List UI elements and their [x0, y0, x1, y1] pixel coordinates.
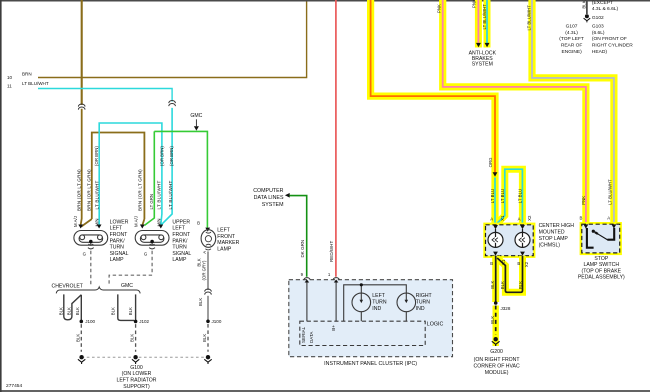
svg-text:(TOP LEFT: (TOP LEFT: [559, 36, 584, 42]
svg-text:PNK: PNK: [471, 0, 476, 8]
svg-text:FRONT: FRONT: [172, 232, 191, 238]
svg-text:BLK: BLK: [111, 307, 116, 315]
svg-text:A: A: [202, 251, 207, 254]
svg-text:IND: IND: [372, 306, 381, 312]
svg-text:LAMP SWITCH: LAMP SWITCH: [583, 262, 619, 268]
svg-text:277454: 277454: [6, 383, 22, 389]
yellow highlight BLK return wires: [492, 256, 499, 302]
svg-text:(ON LOWER: (ON LOWER: [122, 371, 152, 377]
svg-text:LT BLU/WHT: LT BLU/WHT: [607, 179, 612, 205]
svg-text:B: B: [517, 261, 520, 266]
yellow highlight ABS PNK wire: [475, 0, 482, 48]
svg-text:LT BLU: LT BLU: [500, 189, 505, 203]
svg-text:A: A: [490, 217, 493, 222]
svg-text:G103: G103: [592, 24, 604, 30]
G103 text: [592, 24, 633, 56]
svg-text:M A/J: M A/J: [134, 216, 139, 227]
svg-text:G107: G107: [566, 24, 578, 30]
connector C on LT BLU/WHT wire: [169, 101, 176, 107]
svg-text:J100: J100: [85, 319, 95, 324]
G200 text: [474, 349, 521, 376]
arrow to computer data lines: [285, 193, 290, 198]
svg-text:(6.6L): (6.6L): [592, 30, 605, 36]
svg-text:ORG: ORG: [488, 157, 493, 168]
wire BLK left return: [495, 256, 497, 302]
ABS arrows: [476, 43, 481, 47]
svg-text:LEFT: LEFT: [217, 228, 230, 234]
lamp text UPPER: [172, 219, 191, 263]
svg-text:BLK: BLK: [518, 281, 523, 289]
svg-text:TURN: TURN: [110, 245, 125, 251]
svg-text:BLK: BLK: [128, 307, 133, 315]
svg-text:SIGNAL: SIGNAL: [172, 251, 191, 257]
svg-text:DK GRN: DK GRN: [300, 240, 305, 258]
svg-text:TURN: TURN: [372, 299, 387, 305]
marker lamp text: [217, 228, 239, 253]
CHMSL caption: [539, 223, 575, 248]
svg-text:A: A: [607, 216, 610, 221]
svg-text:DATA LINES: DATA LINES: [254, 195, 284, 201]
wire ORG core: [371, 0, 495, 173]
svg-text:BLK: BLK: [130, 334, 135, 342]
svg-text:SUPPORT): SUPPORT): [123, 384, 150, 390]
lamp UPPER LEFT FRONT PARK/TURN SIGNAL LAMP: [135, 231, 169, 249]
svg-text:X2: X2: [527, 215, 532, 221]
svg-text:BLK: BLK: [75, 334, 80, 342]
svg-text:B: B: [197, 221, 200, 226]
rotated wire labels lamp2: [134, 146, 175, 227]
switch contacts: [587, 228, 594, 248]
wire BRN feed row 10 (L from top to left margin): [38, 2, 307, 78]
stop lamp switch yellow box: [582, 224, 620, 253]
svg-text:CORNER OF HVAC: CORNER OF HVAC: [474, 363, 520, 369]
svg-text:IND: IND: [416, 306, 425, 312]
svg-text:BLK: BLK: [490, 280, 495, 288]
svg-text:PNK: PNK: [437, 4, 442, 13]
CHMSL pin arrows: [493, 225, 498, 229]
svg-text:LAMP: LAMP: [217, 246, 232, 252]
svg-text:M A/J: M A/J: [73, 216, 78, 227]
IPC bulb feed bus: [344, 285, 407, 321]
wire ABS LT BLU/WHT core: [486, 0, 488, 43]
svg-text:LEFT: LEFT: [172, 226, 185, 232]
svg-text:MOUNTED: MOUNTED: [539, 230, 565, 236]
svg-text:X1: X1: [500, 215, 505, 221]
svg-text:SYSTEM: SYSTEM: [472, 61, 493, 67]
CHMSL bulb left: [488, 229, 503, 247]
svg-text:PEDAL ASSEMBLY): PEDAL ASSEMBLY): [578, 275, 625, 281]
svg-text:X2: X2: [524, 261, 529, 267]
indicator RIGHT TURN IND: [397, 293, 416, 312]
svg-text:FRONT: FRONT: [110, 232, 129, 238]
border top: [0, 0, 650, 2]
svg-text:(OR BRN): (OR BRN): [94, 146, 99, 166]
svg-text:LOGIC: LOGIC: [427, 321, 444, 327]
svg-text:STOP LAMP: STOP LAMP: [539, 236, 569, 242]
wire PNK core: [443, 0, 586, 224]
yellow highlight PNK wire: [443, 0, 586, 222]
ORG end arrow: [493, 172, 498, 176]
svg-text:SIGNAL: SIGNAL: [110, 251, 129, 257]
svg-text:B: B: [490, 261, 493, 266]
svg-text:GMC: GMC: [121, 283, 133, 289]
svg-text:(OR GRY): (OR GRY): [202, 260, 207, 281]
svg-text:LAMP: LAMP: [110, 257, 125, 263]
switch pivot and blade: [592, 230, 595, 233]
svg-text:SERIAL: SERIAL: [301, 326, 306, 343]
IPC internal B+ line: [335, 283, 337, 322]
computer data lines system text: [253, 188, 284, 208]
splice J100: [80, 320, 84, 324]
svg-text:LAMP: LAMP: [172, 257, 187, 263]
svg-text:TURN: TURN: [416, 299, 431, 305]
svg-text:TURN: TURN: [172, 245, 187, 251]
wire RED/WHT: [335, 0, 337, 277]
ground dashed from lamp1: [90, 251, 92, 284]
svg-text:BLK: BLK: [198, 298, 203, 306]
svg-text:10: 10: [7, 75, 13, 80]
wire BLK(OR GRY) from marker lamp: [207, 251, 209, 290]
svg-text:BLK: BLK: [202, 334, 207, 342]
CHMSL yellow box: [486, 225, 534, 256]
svg-text:(ON RIGHT FRONT: (ON RIGHT FRONT: [474, 357, 521, 363]
svg-text:GMC: GMC: [190, 113, 202, 119]
svg-text:SYSTEM: SYSTEM: [262, 202, 284, 208]
lamp LOWER LEFT FRONT PARK/TURN SIGNAL LAMP: [74, 231, 108, 249]
G100 text: [117, 365, 157, 390]
splice J100 (marker): [206, 320, 210, 324]
ground G102: [585, 14, 589, 18]
ground bus G100 dashed: [82, 356, 208, 358]
svg-text:BRN: BRN: [22, 72, 32, 77]
svg-text:A: A: [518, 217, 521, 222]
pin arrows lamp2: [140, 225, 145, 229]
svg-text:J100: J100: [212, 319, 222, 324]
LOGIC box: [300, 321, 425, 345]
svg-text:LT BLU/WHT: LT BLU/WHT: [482, 4, 487, 30]
svg-text:PNK: PNK: [581, 196, 586, 205]
wire LT BLU CHMSL drop: [494, 177, 496, 224]
svg-text:RIGHT: RIGHT: [416, 293, 433, 299]
brace: [56, 287, 140, 293]
svg-text:BRN (OR LT GRN): BRN (OR LT GRN): [138, 169, 143, 211]
ind labels: [372, 293, 432, 312]
svg-text:BLK: BLK: [581, 0, 586, 8]
border left: [0, 0, 2, 392]
svg-text:RED/WHT: RED/WHT: [329, 241, 334, 262]
CHMSL bottom pin arrows: [493, 252, 498, 256]
svg-text:LT BLU/WHT: LT BLU/WHT: [22, 81, 49, 86]
yellow highlight ORG wire: [371, 0, 495, 176]
svg-text:INSTRUMENT PANEL CLUSTER (IPC): INSTRUMENT PANEL CLUSTER (IPC): [324, 361, 417, 367]
wire LT BLU jumper lamp1 to lamp2: [99, 123, 162, 226]
svg-text:DATA: DATA: [309, 331, 314, 343]
svg-text:LT BLU/WHT: LT BLU/WHT: [168, 180, 173, 209]
yellow highlight LT BLU/WHT switch wire: [532, 0, 614, 222]
svg-text:BRN (OR LT GRN): BRN (OR LT GRN): [76, 169, 81, 211]
svg-text:LEFT: LEFT: [110, 226, 123, 232]
svg-text:BLK: BLK: [59, 307, 64, 315]
splice J102: [134, 320, 138, 324]
svg-text:MARKER: MARKER: [217, 240, 239, 246]
svg-text:LT BLU: LT BLU: [517, 189, 522, 203]
svg-text:J102: J102: [139, 319, 149, 324]
svg-text:(OR BRN): (OR BRN): [169, 146, 174, 166]
border bottom: [0, 390, 650, 392]
GMC ground wires: [118, 294, 134, 320]
svg-text:LT GRN: LT GRN: [149, 194, 154, 210]
svg-text:RIGHT CYLINDER: RIGHT CYLINDER: [592, 43, 633, 49]
junction dot: [360, 283, 363, 286]
wire LT GRN GMC branch: [144, 131, 207, 227]
G107 text: [559, 24, 584, 56]
svg-text:G100: G100: [130, 365, 143, 371]
ground G100 symbols: [78, 355, 212, 364]
port labels: [301, 325, 336, 343]
svg-text:COMPUTER: COMPUTER: [253, 188, 283, 194]
svg-text:BRN (OR LT GRN): BRN (OR LT GRN): [87, 169, 92, 211]
svg-text:LT BLU: LT BLU: [490, 189, 495, 203]
rotated wire labels lamp1: [73, 146, 100, 227]
svg-text:J328: J328: [501, 306, 511, 311]
pin arrows lamp1: [78, 225, 83, 229]
wire BLK to G102: [586, 2, 588, 15]
svg-text:B+: B+: [331, 325, 336, 331]
wire BRN main vertical drop to lamp: [81, 0, 83, 105]
svg-text:ENGINE): ENGINE): [562, 49, 583, 55]
ground dashed from lamp2: [109, 251, 152, 284]
G102 text: [592, 0, 619, 21]
svg-text:UPPER: UPPER: [172, 219, 190, 225]
svg-text:PARK/: PARK/: [172, 238, 188, 244]
svg-text:STOP: STOP: [594, 256, 608, 262]
svg-text:CENTER HIGH: CENTER HIGH: [539, 223, 575, 229]
svg-text:FRONT: FRONT: [217, 234, 236, 240]
wire DK GRN: [289, 196, 306, 277]
wire LT BLU/WHT (gray) core: [532, 0, 614, 224]
svg-text:BLK: BLK: [490, 316, 495, 324]
svg-text:G200: G200: [490, 349, 503, 355]
lamp text LOWER: [110, 219, 129, 263]
IPC box: [289, 280, 453, 357]
indicator LEFT TURN IND: [352, 293, 371, 312]
svg-text:11: 11: [7, 84, 12, 89]
svg-text:BLK: BLK: [500, 281, 505, 289]
svg-text:MODULE): MODULE): [485, 370, 509, 376]
svg-text:LEFT RADIATOR: LEFT RADIATOR: [117, 378, 157, 384]
switch pin arrows: [584, 224, 589, 228]
svg-text:(EXCEPT: (EXCEPT: [592, 0, 613, 6]
svg-text:G102: G102: [592, 15, 604, 21]
wire BLK right return: [497, 256, 522, 293]
splice J328: [494, 301, 498, 305]
svg-text:(CHMSL): (CHMSL): [539, 242, 561, 248]
ABS text: [469, 50, 497, 67]
svg-text:PARK/: PARK/: [110, 238, 126, 244]
svg-text:LT BLU/WHT: LT BLU/WHT: [527, 5, 532, 31]
svg-text:B: B: [579, 216, 582, 221]
yellow highlight CHMSL cyan drop + jumper: [491, 176, 498, 225]
dashed BLK to G200 with highlight: [493, 306, 499, 336]
svg-text:4.3L & 6.6L): 4.3L & 6.6L): [592, 6, 619, 12]
svg-text:LEFT: LEFT: [372, 293, 385, 299]
connector on marker wire: [205, 289, 212, 295]
CHEVROLET ground wires: [64, 294, 82, 319]
yellow highlight ABS LT BLU/WHT wire: [484, 0, 491, 48]
svg-text:LOWER: LOWER: [110, 219, 129, 225]
svg-text:(ON FRONT OF: (ON FRONT OF: [592, 36, 627, 42]
wire BRN jumper lamp1 to lamp2: [81, 133, 144, 227]
svg-text:(TOP OF BRAKE: (TOP OF BRAKE: [582, 268, 622, 274]
switch caption: [578, 256, 625, 281]
svg-text:CHEVROLET: CHEVROLET: [52, 284, 84, 290]
svg-text:HEAD): HEAD): [592, 49, 607, 55]
wire LT BLU/WHT row 11: [38, 89, 172, 102]
labels LT BLU x3: [490, 189, 522, 203]
svg-text:BLK: BLK: [66, 307, 71, 315]
connector C on BRN wire: [78, 104, 85, 110]
svg-text:BLK: BLK: [75, 307, 80, 315]
svg-text:(OR BRN): (OR BRN): [160, 146, 165, 166]
IPC internal serial data line: [306, 283, 308, 322]
svg-text:LT BLU/WHT: LT BLU/WHT: [95, 180, 100, 209]
wire LT BLU jumper: [496, 169, 522, 225]
svg-text:REAR OF: REAR OF: [561, 43, 583, 49]
ground G200: [493, 335, 499, 346]
svg-text:(4.3L): (4.3L): [565, 30, 578, 36]
wire ABS PNK core: [477, 0, 479, 43]
svg-text:LT BLU/WHT: LT BLU/WHT: [157, 180, 162, 209]
svg-text:X1: X1: [501, 259, 506, 265]
CHMSL bulb right: [515, 229, 530, 247]
